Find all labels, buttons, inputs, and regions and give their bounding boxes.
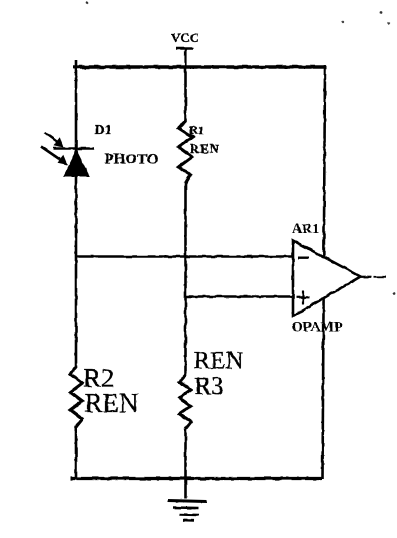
wire right vertical rail <box>323 65 326 479</box>
scan speck dots <box>86 2 396 295</box>
wire middle vertical mid segment <box>184 183 187 376</box>
svg-text:VCC: VCC <box>171 30 199 45</box>
svg-text:REN: REN <box>85 388 139 418</box>
svg-text:R1: R1 <box>189 123 204 137</box>
wire left vertical rail upper <box>75 60 78 368</box>
wire bottom rail ground <box>70 477 322 480</box>
wire left vertical rail lower <box>75 428 78 479</box>
wire middle vertical upper segment <box>184 67 187 122</box>
resistor R1 <box>179 121 220 184</box>
svg-text:R3: R3 <box>195 373 224 400</box>
svg-text:OPAMP: OPAMP <box>292 320 343 336</box>
resistor R3 <box>180 348 244 430</box>
svg-text:REN: REN <box>190 141 220 156</box>
svg-text:AR1: AR1 <box>292 222 319 237</box>
op-amp U1 AR1 <box>292 222 361 336</box>
svg-text:REN: REN <box>194 348 244 375</box>
photodiode D1 <box>41 123 158 176</box>
wire top rail VCC <box>73 65 327 69</box>
wire op-amp output <box>359 276 386 278</box>
power VCC symbol <box>171 30 199 67</box>
wire inverting input <box>76 255 293 257</box>
ground <box>168 501 207 521</box>
svg-text:D1: D1 <box>95 123 112 138</box>
wire middle vertical lower segment to ground <box>184 429 187 499</box>
wire non-inverting input <box>186 295 293 297</box>
svg-text:PHOTO: PHOTO <box>105 152 159 168</box>
resistor R2 <box>71 363 139 431</box>
